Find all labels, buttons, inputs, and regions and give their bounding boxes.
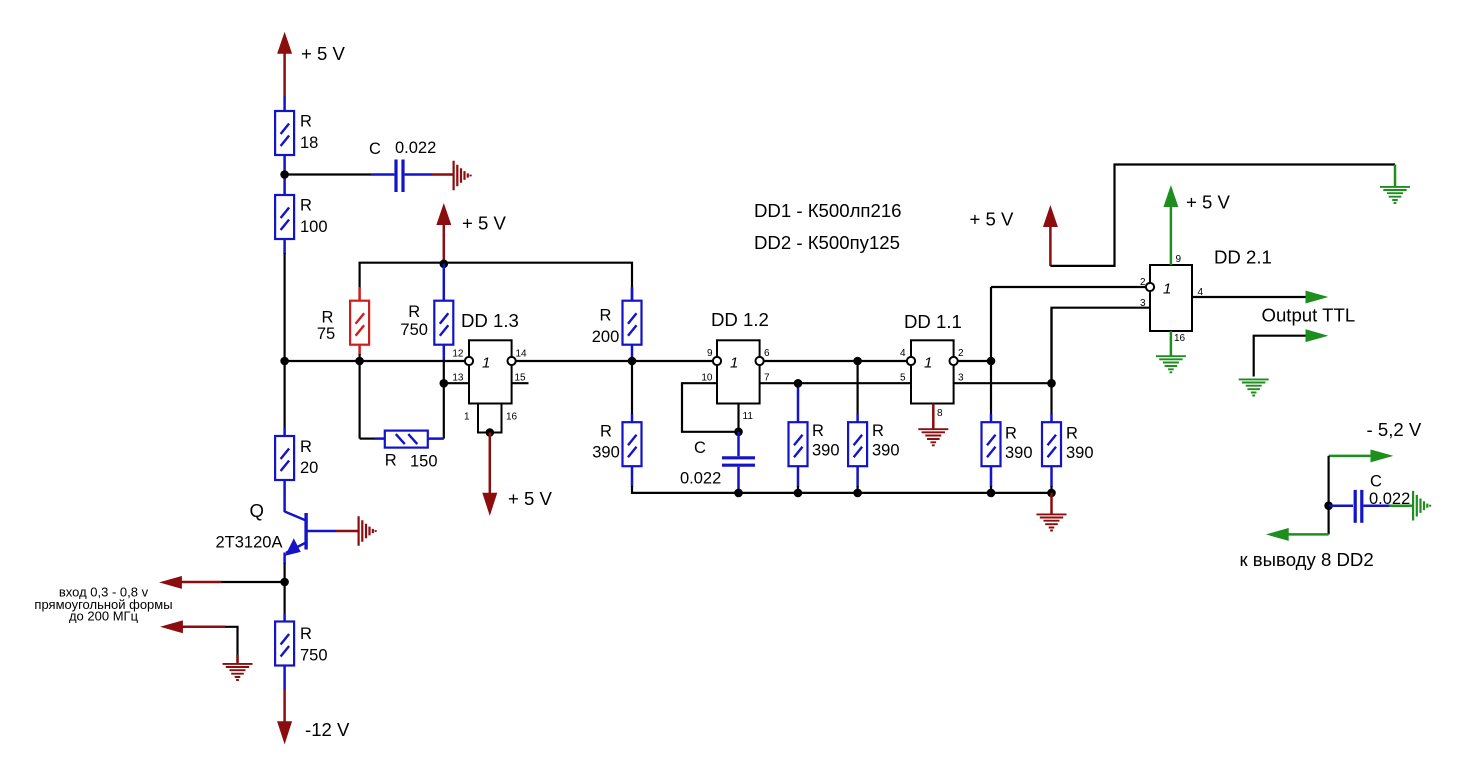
wire DD1.2 pin6 to DD1.1 pin4: [764, 360, 907, 362]
svg-text:390: 390: [1005, 444, 1033, 462]
node H (C2 bottom): [734, 489, 743, 498]
node B (+5V rail junction): [440, 260, 449, 269]
svg-text:DD1 - К500лп216: DD1 - К500лп216: [754, 200, 902, 221]
svg-text:390: 390: [812, 442, 840, 460]
node K (R390c top): [853, 357, 862, 366]
bottom rail wire: [632, 492, 1052, 494]
svg-text:+ 5 V: + 5 V: [301, 43, 346, 64]
ground below input return: [223, 664, 253, 680]
DD1.3 power node: [486, 428, 495, 437]
node G (pin11 junction): [734, 428, 743, 437]
ground (green) below output return: [1239, 379, 1269, 395]
wire to DD2.1 pin 3: [1052, 308, 1151, 384]
svg-text:10: 10: [701, 373, 713, 384]
svg-text:R: R: [300, 197, 312, 215]
svg-text:C: C: [1370, 473, 1382, 491]
power +5V right arrow: [970, 207, 1058, 266]
label DD1 type: [754, 200, 902, 221]
wire node A to C: [285, 173, 395, 175]
wire pin 13: [444, 382, 469, 384]
wire DD1.3 pin14 to DD1.2 pin9: [516, 360, 713, 362]
wire R100 to main node: [283, 239, 286, 362]
power +5V DD2.1 pin 9: [1164, 187, 1230, 266]
svg-text:4: 4: [900, 348, 906, 359]
svg-text:R: R: [300, 438, 312, 456]
svg-text:1: 1: [730, 355, 738, 372]
resistor R18: [275, 111, 318, 155]
node C (main/R100): [280, 357, 289, 366]
svg-text:1: 1: [464, 412, 470, 423]
power +5V mid arrow: [437, 205, 507, 265]
resistor R200: [592, 288, 642, 361]
svg-text:+ 5 V: + 5 V: [508, 488, 553, 509]
svg-text:14: 14: [516, 349, 528, 360]
output TTL wire pin 4: [1192, 291, 1355, 325]
DD1.1 pin labels: [900, 348, 964, 419]
svg-text:DD2 - К500пу125: DD2 - К500пу125: [754, 232, 900, 253]
svg-text:390: 390: [872, 442, 900, 460]
svg-text:R: R: [600, 423, 612, 441]
node J (R390b bottom): [794, 489, 803, 498]
ground below bottom rail: [1037, 493, 1067, 531]
label DD2 type: [754, 232, 900, 253]
resistor R750 (lower): [275, 582, 327, 666]
svg-text:R: R: [300, 113, 312, 131]
wire +5V rail to top right: [1050, 165, 1395, 266]
node I (R390b top): [794, 379, 803, 388]
svg-text:2: 2: [1140, 277, 1146, 288]
resistor R390 second: [789, 383, 840, 494]
label к выводу 8 DD2: [1240, 549, 1374, 570]
power +5V below DD1.3: [483, 433, 553, 515]
svg-text:R: R: [872, 422, 884, 440]
resistor R150: [360, 361, 444, 471]
input wire with arrow: [161, 577, 285, 589]
svg-text:+ 5 V: + 5 V: [462, 213, 507, 234]
svg-text:к выводу 8 DD2: к выводу 8 DD2: [1240, 549, 1374, 570]
svg-text:20: 20: [300, 459, 318, 477]
DD1.3 pin labels: [452, 349, 527, 423]
node A (R18/R100/C junction): [280, 170, 289, 179]
svg-text:6: 6: [764, 348, 770, 359]
main node wire (left segment): [284, 360, 465, 362]
wire -5.2V arrow: [1329, 450, 1392, 506]
svg-text:750: 750: [400, 321, 428, 339]
svg-text:DD 1.2: DD 1.2: [711, 309, 769, 330]
DD1.1 pin 8 wire: [932, 404, 935, 430]
node P (R390e bottom): [1047, 489, 1056, 498]
input return wire with arrow: [162, 621, 238, 664]
svg-text:+ 5 V: + 5 V: [1186, 192, 1231, 213]
svg-text:R: R: [300, 625, 312, 643]
capacitor C (top, 0.022): [369, 139, 436, 192]
node R (right C junction): [1324, 501, 1333, 510]
capacitor C3 (0.022 right): [1329, 473, 1411, 523]
wire C to ground: [405, 173, 453, 176]
svg-text:390: 390: [592, 444, 620, 462]
svg-text:DD 1.1: DD 1.1: [904, 311, 962, 332]
svg-text:1: 1: [482, 355, 490, 372]
svg-text:R: R: [600, 307, 612, 325]
svg-text:DD 2.1: DD 2.1: [1214, 247, 1272, 268]
DD1.2 pin 9 bubble: [713, 357, 721, 365]
svg-text:8: 8: [937, 408, 943, 419]
svg-text:+ 5 V: + 5 V: [970, 209, 1015, 230]
svg-text:-12 V: -12 V: [305, 719, 350, 740]
wire DD1.2 pin7 to DD1.1 pin5: [760, 382, 911, 384]
ground (green) top right: [1380, 165, 1410, 204]
ground (sideways) at base: [359, 516, 376, 546]
wire R750 node down to R150: [443, 361, 445, 439]
svg-text:до 200 МГц: до 200 МГц: [69, 609, 139, 624]
output return wire: [1254, 330, 1327, 377]
svg-text:100: 100: [300, 218, 328, 236]
op-amp U4 gate DD2.1 body: [1150, 247, 1272, 332]
svg-text:2: 2: [958, 348, 964, 359]
svg-text:16: 16: [506, 412, 518, 423]
DD1.1 pin 4 bubble: [907, 357, 915, 365]
svg-text:390: 390: [1066, 444, 1094, 462]
svg-text:0.022: 0.022: [680, 470, 721, 488]
DD2.1 pin 2 bubble: [1146, 283, 1154, 291]
DD1.2 pin 11 stub: [737, 404, 739, 432]
wire base to ground: [336, 530, 358, 533]
svg-text:R: R: [408, 303, 420, 321]
svg-text:5: 5: [900, 373, 906, 384]
resistor R390 fourth: [982, 287, 1033, 494]
node Q (input node): [280, 578, 289, 587]
svg-text:3: 3: [958, 373, 964, 384]
node M (pin2 junction): [987, 357, 996, 366]
resistor R390 first: [592, 361, 641, 494]
svg-text:R: R: [1005, 425, 1017, 443]
svg-text:12: 12: [452, 349, 464, 360]
DD1.3 pin 15 stub: [512, 382, 529, 384]
ground (sideways, top-left): [454, 161, 471, 191]
svg-text:Output TTL: Output TTL: [1262, 305, 1356, 326]
svg-text:- 5,2 V: - 5,2 V: [1367, 419, 1422, 440]
power -12V: [278, 666, 350, 743]
node F (R200/R390 main): [628, 357, 637, 366]
DD1.2 feedback wire pin10 to pin11: [682, 383, 739, 432]
node D (main/R75/R150): [355, 357, 364, 366]
wire rail to R750: [443, 264, 446, 301]
ground below DD1.1 pin 8: [918, 429, 948, 445]
svg-text:R: R: [812, 422, 824, 440]
svg-text:16: 16: [1174, 333, 1186, 344]
wire to pin 8 DD2 arrow: [1268, 506, 1329, 541]
op-amp U1 gate DD1.3 body: [461, 310, 519, 433]
svg-text:0.022: 0.022: [395, 139, 436, 157]
wire DD1.1 pin3 right: [954, 382, 1052, 384]
resistor R100: [275, 195, 327, 239]
wire emitter to input node: [284, 563, 286, 582]
svg-text:R: R: [1066, 425, 1078, 443]
node L (R390c bottom): [853, 489, 862, 498]
wire C3 to ground: [1389, 504, 1412, 507]
transistor Q 2T3120A: [216, 480, 337, 564]
DD2.1 pin labels: [1140, 254, 1204, 344]
resistor R20: [275, 361, 318, 480]
svg-text:15: 15: [515, 373, 527, 384]
svg-text:750: 750: [300, 647, 328, 665]
resistor R75: [317, 301, 369, 361]
svg-text:2Т3120А: 2Т3120А: [216, 534, 283, 552]
node N (R390d bottom): [987, 489, 996, 498]
svg-text:9: 9: [1176, 254, 1182, 265]
svg-text:R: R: [385, 452, 397, 470]
ground DD2.1 pin 16: [1156, 331, 1186, 372]
svg-text:9: 9: [707, 348, 713, 359]
svg-text:200: 200: [592, 328, 620, 346]
ground (sideways, green right): [1413, 491, 1430, 521]
wire to DD2.1 pin 2: [991, 286, 1146, 288]
svg-text:13: 13: [452, 373, 464, 384]
node O (pin3 junction): [1047, 379, 1056, 388]
top rail wire: [360, 263, 632, 301]
node E (pin13 junction): [440, 379, 449, 388]
svg-text:11: 11: [743, 411, 754, 422]
DD1.3 pin 14 bubble: [508, 357, 516, 365]
svg-text:3: 3: [1140, 298, 1146, 309]
wire DD1.1 pin2 right: [958, 360, 991, 362]
svg-text:1: 1: [924, 355, 932, 372]
svg-text:7: 7: [764, 373, 770, 384]
DD1.2 pin labels: [701, 348, 770, 422]
svg-text:1: 1: [1163, 281, 1171, 298]
svg-text:DD 1.3: DD 1.3: [461, 310, 519, 331]
svg-text:150: 150: [410, 453, 438, 471]
svg-text:R: R: [322, 309, 334, 327]
svg-text:Q: Q: [250, 500, 264, 521]
op-amp U3 gate DD1.1 body: [904, 311, 962, 404]
svg-text:C: C: [369, 140, 381, 158]
resistor R390 third: [848, 361, 899, 494]
capacitor C2 (0.022 under DD1.2): [680, 432, 755, 493]
svg-text:C: C: [694, 439, 706, 457]
DD1.2 pin 6 bubble: [756, 357, 764, 365]
svg-text:75: 75: [317, 325, 335, 343]
label input text: [34, 585, 172, 624]
resistor R750 (upper): [400, 301, 453, 361]
resistor R390 fifth: [1042, 308, 1094, 494]
op-amp U2 gate DD1.2 body: [711, 309, 769, 404]
wire R18-R100: [283, 155, 286, 195]
svg-text:18: 18: [300, 134, 318, 152]
DD1.1 pin 2 bubble: [950, 357, 958, 365]
power +5V top-left: [278, 33, 346, 111]
DD1.3 pin 12 bubble: [465, 357, 473, 365]
label -5.2V: [1367, 419, 1422, 440]
